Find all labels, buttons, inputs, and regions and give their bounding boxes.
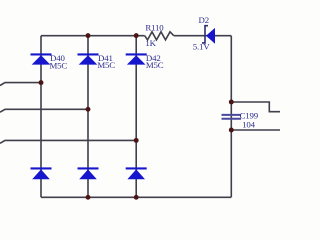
svg-text:D2: D2 (199, 15, 209, 25)
svg-text:M5C: M5C (50, 60, 68, 70)
svg-text:M5C: M5C (97, 60, 115, 70)
svg-text:1K: 1K (145, 38, 156, 48)
svg-text:M5C: M5C (146, 60, 164, 70)
svg-text:5.1V: 5.1V (193, 42, 211, 52)
svg-text:104: 104 (242, 120, 255, 130)
svg-text:R110: R110 (145, 23, 164, 33)
